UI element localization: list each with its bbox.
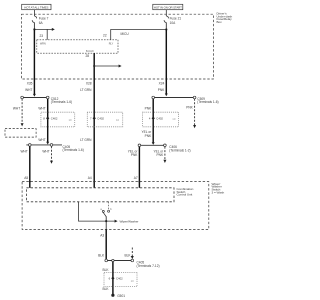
- svg-text:10: 10: [116, 118, 120, 122]
- svg-text:23: 23: [39, 34, 43, 38]
- svg-text:A3: A3: [100, 234, 104, 238]
- svg-text:PNK: PNK: [186, 105, 193, 109]
- label Combination Switch Control Unit: [177, 187, 194, 197]
- wire dashed branch from C405 (WHT): [42, 146, 53, 164]
- svg-text:WHT: WHT: [13, 107, 20, 111]
- wire dashed branch from C406: [153, 147, 166, 163]
- svg-text:PNK: PNK: [145, 134, 152, 138]
- svg-text:(Terminals 7-12): (Terminals 7-12): [137, 264, 160, 268]
- wiper/washer switch box (dashed): [22, 182, 209, 230]
- svg-text:X28: X28: [86, 81, 92, 85]
- svg-text:22: 22: [103, 34, 107, 38]
- fuse F7: [32, 16, 48, 25]
- svg-text:10: 10: [131, 279, 135, 283]
- svg-text:Fuse 7: Fuse 7: [39, 16, 49, 20]
- wire from C405 to pin A5 (WHT): [21, 146, 31, 188]
- svg-text:X24: X24: [159, 81, 165, 85]
- arrow to Wiper/Washer: [115, 220, 118, 223]
- svg-text:BLK: BLK: [124, 253, 131, 257]
- gray dashed drop to switch contact: [108, 202, 110, 210]
- svg-text:PNK: PNK: [157, 153, 164, 157]
- wire BLK down: [105, 229, 107, 260]
- arrow into C405: [46, 142, 49, 145]
- wire X35 main down (WHT feed): [33, 29, 35, 94]
- svg-text:B-CAN: B-CAN: [86, 50, 94, 53]
- connector C402 terminal 7 (dotted box): [87, 112, 122, 127]
- svg-text:BLK: BLK: [98, 253, 105, 257]
- node C405 output terminal: [112, 259, 114, 261]
- svg-text:A4: A4: [88, 176, 92, 180]
- wire fuse 7 down: [33, 23, 35, 30]
- joint connector C512 bar: [21, 96, 72, 104]
- svg-text:BLK: BLK: [102, 268, 109, 272]
- svg-text:WHT: WHT: [42, 150, 49, 154]
- svg-text:WRN: WRN: [40, 43, 46, 46]
- svg-text:LT GRN: LT GRN: [80, 138, 92, 142]
- wire branch to MICU pin 23: [46, 29, 48, 39]
- wire LT GRN middle column: [93, 79, 95, 188]
- combination switch control unit (gray dashed box): [26, 188, 174, 202]
- MICU box (dashed): [37, 40, 118, 53]
- header box HOT IN ON OR START: [153, 4, 183, 9]
- joint connector C405 bar: [26, 144, 83, 152]
- svg-text:(Terminals 1-6): (Terminals 1-6): [63, 148, 84, 152]
- label Wiper/Washer Switch: [212, 182, 225, 195]
- wire arrow right (to other circuit): [34, 28, 54, 31]
- svg-text:G501: G501: [117, 294, 125, 298]
- svg-text:BLK: BLK: [102, 287, 109, 291]
- switch S1 blade: [103, 212, 106, 216]
- wire header to fuse 21: [165, 10, 167, 16]
- svg-text:PNK: PNK: [145, 106, 152, 110]
- svg-text:PNK: PNK: [158, 88, 165, 92]
- reference box (empty dashed): [5, 129, 36, 138]
- svg-text:Control Unit: Control Unit: [177, 193, 193, 197]
- node pin28 junction: [93, 65, 95, 67]
- svg-text:RLY: RLY: [109, 43, 114, 46]
- wire MICU pin 28 down: [93, 53, 95, 79]
- connector C402 terminal 6 (dotted box): [104, 272, 137, 286]
- wire BLK from C405 bar to ground: [112, 262, 114, 295]
- fuse/relay box (dashed): [22, 14, 214, 79]
- connector C402 terminal 8 (dotted box): [41, 112, 75, 127]
- svg-text:WHT: WHT: [25, 88, 32, 92]
- svg-text:(Terminals 1-6): (Terminals 1-6): [51, 100, 72, 104]
- wire dashed branch from C509 (PNK): [186, 99, 196, 128]
- svg-text:HOT IN ON OR START: HOT IN ON OR START: [154, 6, 182, 10]
- wire fuse 21 down: [165, 23, 167, 30]
- wire X24 main down (PNK feed): [165, 30, 167, 95]
- wire dashed branch into C405 right (BLK): [124, 248, 133, 260]
- node pin A4 entry: [93, 181, 95, 183]
- joint connector C406 bar: [138, 144, 191, 152]
- svg-text:28: 28: [85, 54, 89, 58]
- svg-text:LT GRN: LT GRN: [80, 88, 92, 92]
- svg-text:MICU: MICU: [121, 32, 130, 36]
- connector C402 terminal 4 (dotted box): [143, 112, 179, 127]
- wire from C406 to pin A7 (YEL or PNK): [128, 147, 141, 188]
- node switch common junction: [105, 220, 107, 222]
- arrow into C509: [165, 94, 168, 97]
- svg-text:C402: C402: [156, 116, 163, 120]
- node fuse7 junction: [33, 28, 35, 30]
- svg-text:10A: 10A: [170, 21, 177, 25]
- svg-text:WHT: WHT: [38, 106, 45, 110]
- wire switch feed from control unit: [79, 202, 116, 221]
- svg-text:X35: X35: [27, 81, 33, 85]
- svg-text:C402: C402: [97, 116, 104, 120]
- switch S1 contacts: [100, 208, 112, 212]
- svg-text:(Terminals 1-2): (Terminals 1-2): [169, 148, 190, 152]
- svg-text:(Terminals 1-6): (Terminals 1-6): [197, 100, 218, 104]
- svg-text:A5: A5: [24, 176, 28, 180]
- svg-text:HOT AT ALL TIMES: HOT AT ALL TIMES: [24, 6, 48, 10]
- svg-text:10: 10: [172, 117, 176, 121]
- svg-text:10: 10: [69, 118, 73, 122]
- fuse F21: [164, 16, 181, 25]
- wire dashed branch from C512 left (WHT): [13, 99, 24, 127]
- node fuse21 junction: [165, 28, 167, 30]
- arrow into C512: [33, 94, 36, 97]
- svg-text:WHT: WHT: [38, 138, 45, 142]
- svg-text:C402: C402: [116, 276, 123, 280]
- wire header to fuse 7: [33, 10, 35, 16]
- label Driver's Under-dash Fuse/Relay Box: [217, 11, 233, 24]
- arrow into C406: [152, 142, 155, 145]
- switch common wire: [105, 216, 107, 229]
- svg-text:Wiper/Washer: Wiper/Washer: [120, 219, 139, 223]
- svg-text:WHT: WHT: [21, 150, 28, 154]
- svg-text:3 = Wash: 3 = Wash: [212, 191, 225, 195]
- wire from C512 right down (WHT): [47, 99, 49, 143]
- svg-text:Box: Box: [217, 20, 223, 24]
- svg-text:A7: A7: [134, 176, 138, 180]
- joint connector C509 bar: [152, 96, 219, 104]
- svg-text:Fuse 21: Fuse 21: [170, 16, 182, 20]
- joint connector C405 (terminals 7-12) bar: [105, 259, 160, 268]
- svg-text:C402: C402: [51, 116, 58, 120]
- ground G501: [111, 294, 125, 298]
- wire branch to MICU pin 22: [111, 30, 167, 40]
- wire from C509 down (PNK): [152, 99, 154, 143]
- header box HOT AT ALL TIMES: [22, 4, 51, 9]
- wire arrow right from pin28 (to other circuit): [94, 65, 121, 68]
- svg-text:PNK: PNK: [131, 153, 138, 157]
